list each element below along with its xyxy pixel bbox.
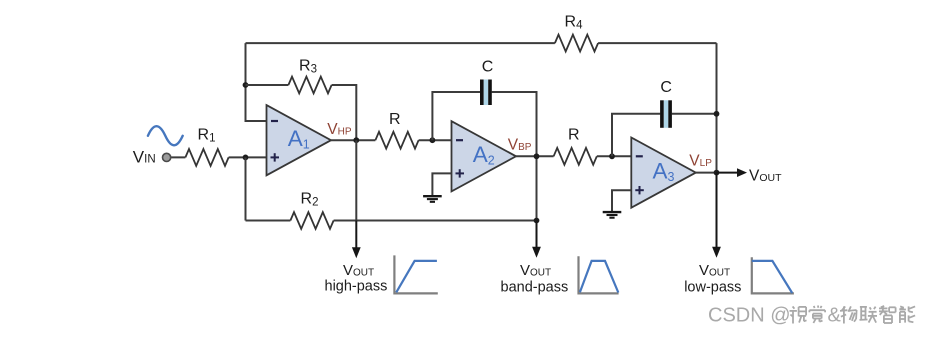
svg-text:R2: R2 bbox=[301, 191, 319, 209]
wire: R2 bottom feedback line bbox=[246, 220, 537, 222]
VIN terminal bbox=[163, 153, 171, 161]
graph: band-pass response bbox=[579, 256, 619, 293]
svg-text:VOUT: VOUT bbox=[749, 167, 782, 184]
svg-text:VOUT: VOUT bbox=[699, 262, 730, 279]
wire: VHP output column down bbox=[355, 140, 357, 221]
node A3 inverting input bbox=[609, 153, 615, 159]
resistor R2 bbox=[290, 212, 333, 229]
svg-text:band-pass: band-pass bbox=[501, 280, 569, 296]
wire: R4 right column down through C and VLP bbox=[716, 43, 718, 221]
wire: left feedback column to A1 inverting input bbox=[246, 43, 267, 121]
op-amp A1 bbox=[267, 105, 332, 175]
svg-text:C: C bbox=[660, 79, 672, 96]
node VBP to R2 line junction bbox=[534, 218, 540, 224]
graph: high-pass response bbox=[394, 255, 437, 293]
node: R3/R4 junction bbox=[243, 82, 249, 88]
svg-text:R3: R3 bbox=[299, 58, 317, 76]
svg-text:VHP: VHP bbox=[327, 121, 352, 138]
svg-text:VLP: VLP bbox=[689, 153, 712, 170]
svg-text:R1: R1 bbox=[198, 127, 216, 145]
resistor R (stage 3) bbox=[554, 148, 597, 165]
svg-text:C: C bbox=[482, 59, 494, 76]
node VHP bbox=[353, 137, 359, 143]
arrow: band-pass output bbox=[536, 221, 538, 248]
node VBP bbox=[534, 153, 540, 159]
resistor R (stage 2) bbox=[375, 132, 418, 149]
wire: A1 output VHP to R and A2 inverting input bbox=[331, 139, 452, 141]
graph: low-pass response bbox=[752, 257, 794, 293]
svg-text:VOUT: VOUT bbox=[520, 262, 551, 279]
wire: A2 output VBP to R and A3 inverting input bbox=[515, 155, 631, 157]
resistor R4 bbox=[555, 35, 598, 52]
ground (A3) bbox=[603, 212, 622, 218]
node C (A3) top junction bbox=[714, 111, 720, 117]
wire: A3 output bbox=[695, 172, 717, 174]
arrow: high-pass output bbox=[355, 221, 357, 249]
svg-text:high-pass: high-pass bbox=[325, 278, 388, 294]
watermark CJK glyph approximations bbox=[790, 306, 916, 324]
svg-text:&: & bbox=[828, 305, 842, 327]
svg-text:VIN: VIN bbox=[133, 148, 156, 167]
resistor R1 bbox=[185, 149, 228, 166]
svg-text:CSDN @: CSDN @ bbox=[708, 305, 791, 327]
arrow: VOUT right bbox=[717, 172, 738, 174]
ground (A2) bbox=[423, 196, 442, 202]
op-amp A3 bbox=[631, 138, 696, 208]
wire: A1 + node down to R2 line bbox=[245, 157, 247, 220]
wire: R4 top line bbox=[246, 42, 717, 44]
wire: A3 + input to ground bbox=[612, 190, 631, 212]
wire: input line VIN to A1 + bbox=[171, 156, 267, 158]
capacitor C (A3) bbox=[660, 100, 672, 128]
arrow: low-pass output bbox=[716, 173, 718, 248]
op-amp A2 bbox=[452, 121, 517, 191]
svg-text:R: R bbox=[568, 127, 580, 144]
wire: C feedback around A3 bbox=[612, 114, 717, 157]
svg-text:R: R bbox=[389, 111, 401, 128]
wire: C feedback around A2 bbox=[432, 92, 536, 221]
svg-text:VBP: VBP bbox=[508, 136, 532, 153]
wire: A2 + input to ground bbox=[432, 173, 451, 195]
svg-text:VOUT: VOUT bbox=[343, 262, 374, 279]
resistor R3 bbox=[288, 77, 331, 94]
svg-text:low-pass: low-pass bbox=[684, 280, 741, 296]
sine wave source symbol bbox=[148, 126, 183, 145]
wire: R3 feedback line bbox=[246, 85, 357, 140]
svg-text:R4: R4 bbox=[565, 14, 584, 32]
capacitor C (A2) bbox=[480, 80, 492, 106]
node: A1 noninverting input junction bbox=[243, 155, 249, 161]
node VLP bbox=[714, 170, 720, 176]
node A2 inverting input bbox=[430, 137, 436, 143]
